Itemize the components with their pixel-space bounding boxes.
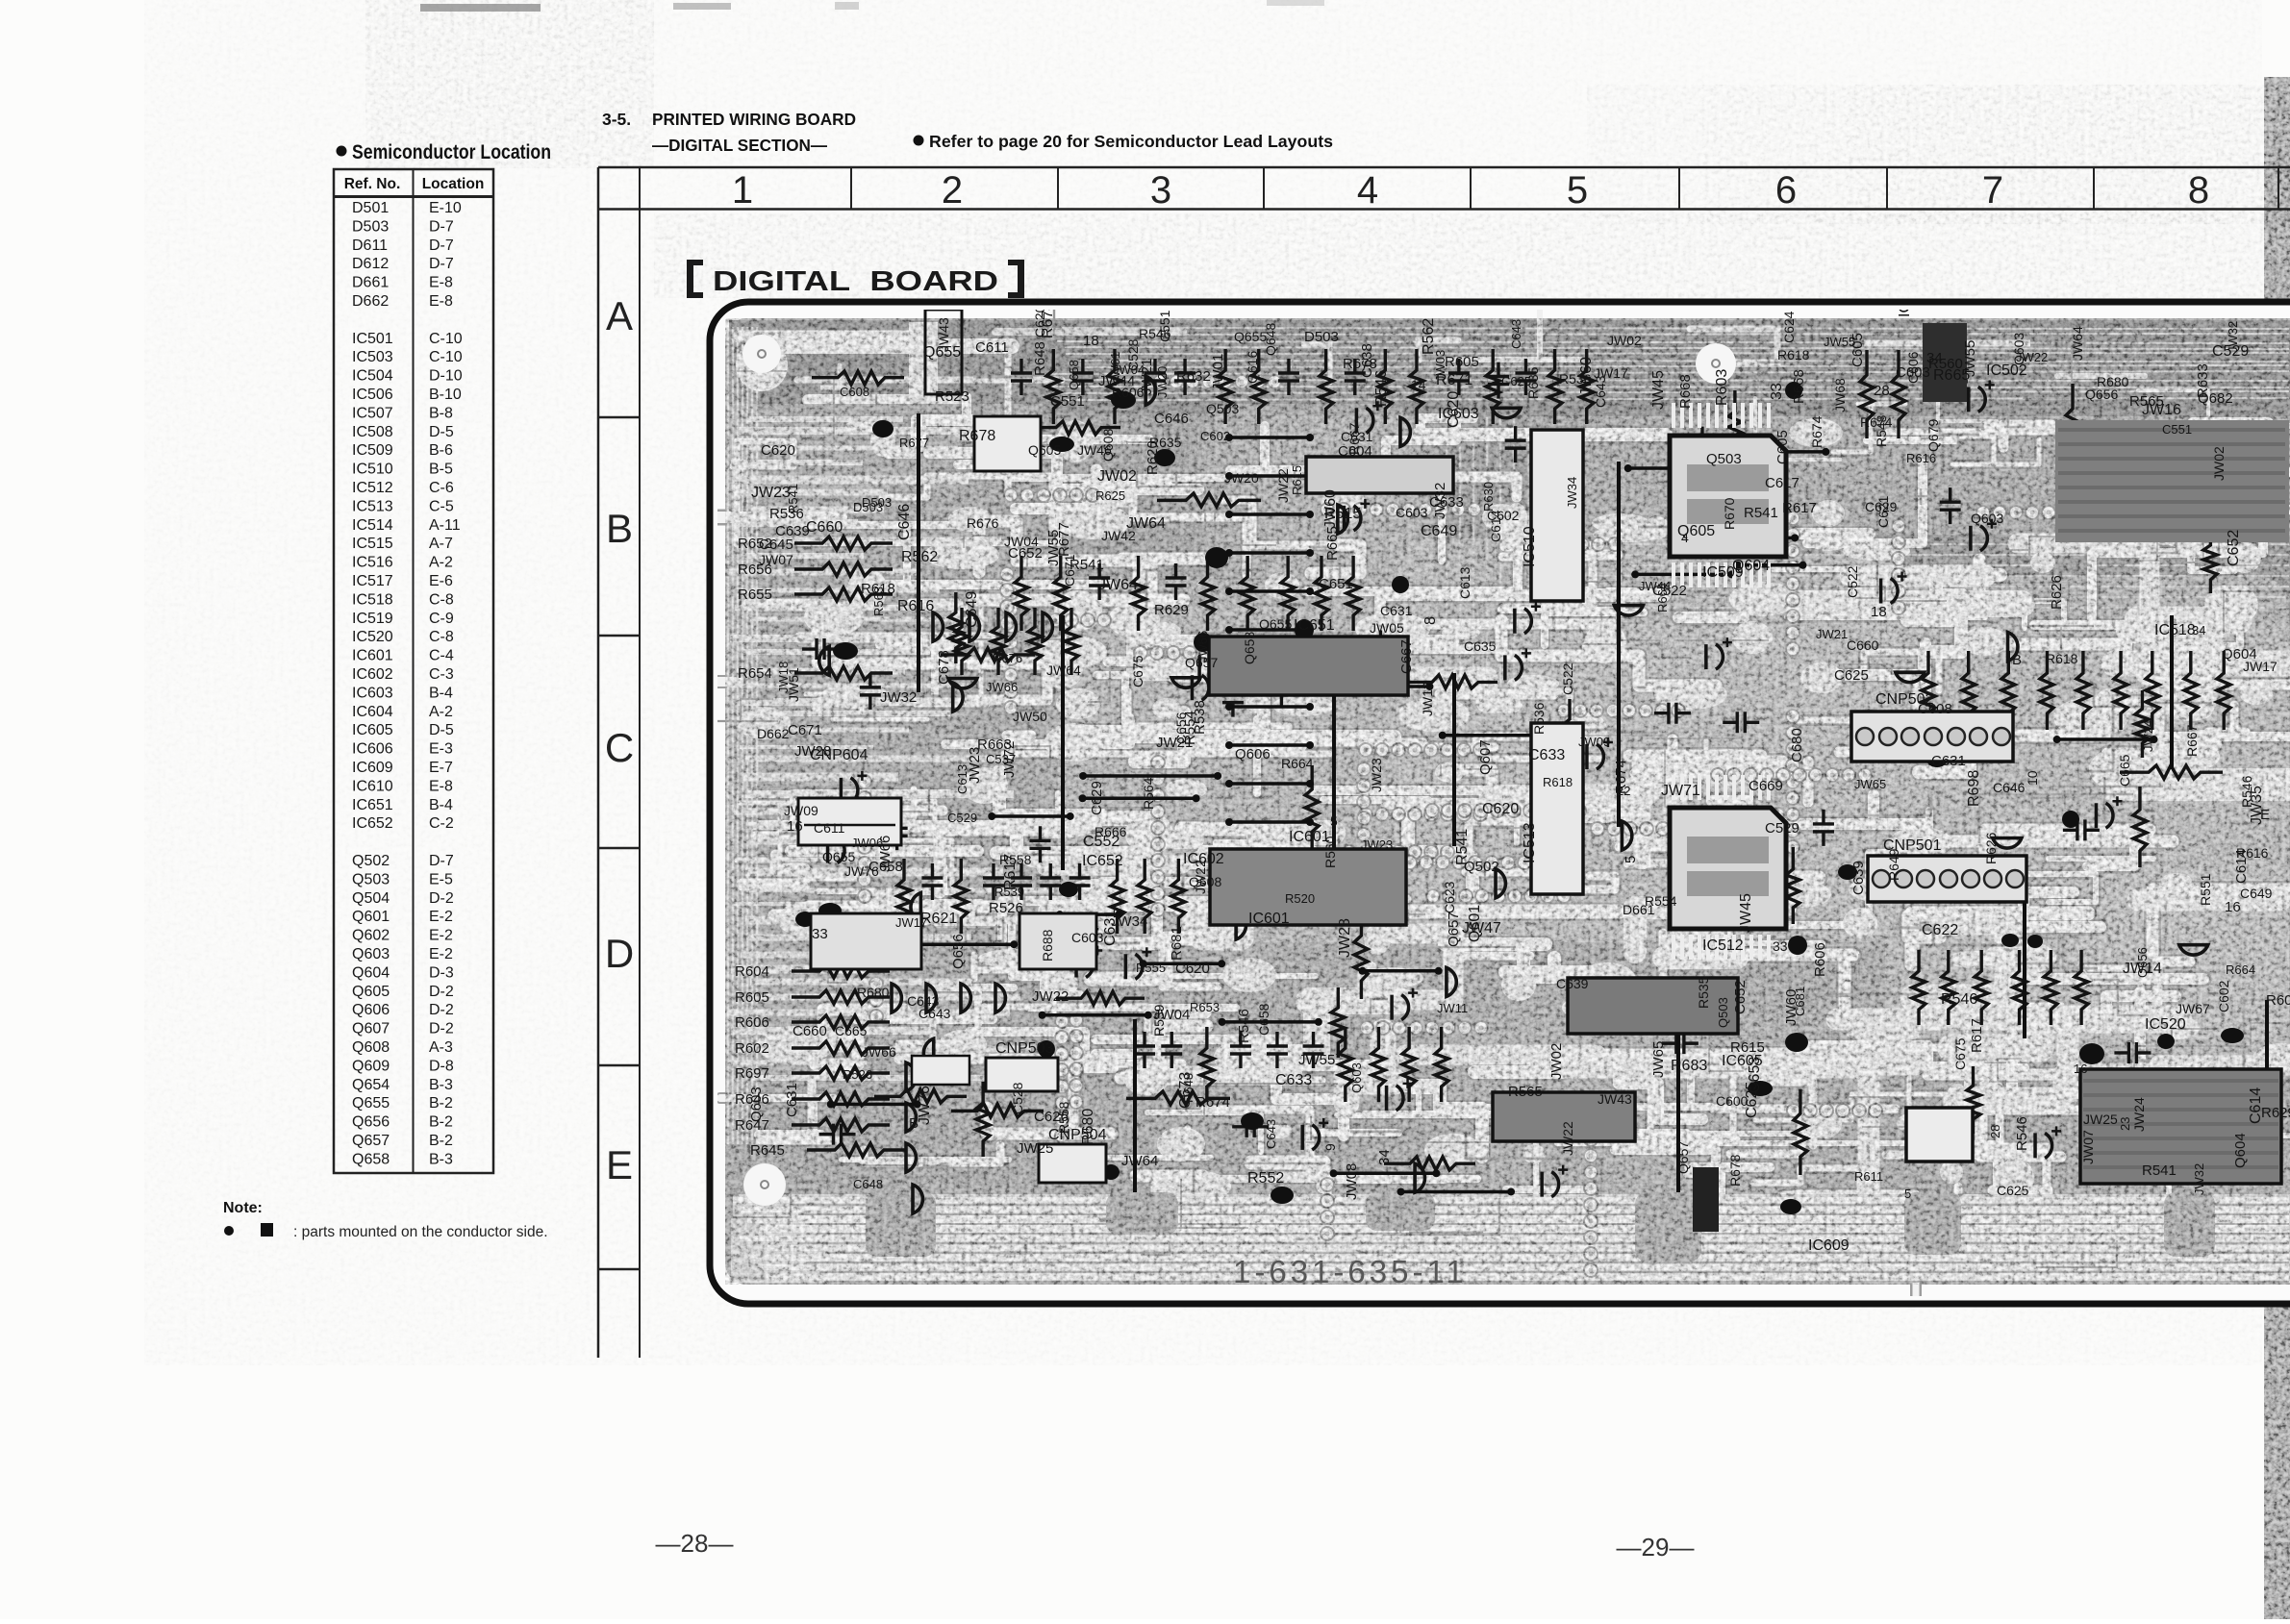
svg-text:3: 3 — [1150, 169, 1171, 212]
svg-text:E-6: E-6 — [429, 573, 453, 589]
svg-text:B: B — [909, 1115, 919, 1132]
svg-text:C624: C624 — [1781, 311, 1797, 343]
svg-text:C652: C652 — [2226, 530, 2242, 566]
svg-text:Q603: Q603 — [1971, 511, 2003, 526]
svg-text:D501: D501 — [352, 200, 389, 216]
svg-text:R605: R605 — [1445, 354, 1479, 370]
svg-text:C660: C660 — [806, 519, 843, 536]
svg-text:JW65: JW65 — [1650, 1041, 1667, 1078]
svg-text:R667: R667 — [1346, 422, 1362, 455]
svg-text:C529: C529 — [947, 811, 977, 825]
svg-text:Location: Location — [422, 176, 485, 192]
svg-text:C613: C613 — [1457, 566, 1472, 599]
svg-text:JW55: JW55 — [1298, 1052, 1335, 1068]
svg-text:R615: R615 — [1290, 465, 1304, 495]
svg-text:R523: R523 — [935, 388, 969, 405]
svg-text:1-631-635-11: 1-631-635-11 — [1233, 1254, 1468, 1289]
svg-text:C633: C633 — [1275, 1072, 1312, 1088]
svg-text:E-5: E-5 — [429, 871, 453, 887]
svg-text:C-3: C-3 — [429, 666, 454, 683]
svg-text:D-7: D-7 — [429, 853, 454, 869]
svg-text:IC506: IC506 — [352, 387, 393, 403]
svg-text:C-10: C-10 — [429, 349, 463, 365]
svg-text:IC504: IC504 — [352, 368, 393, 385]
svg-text:R558: R558 — [999, 852, 1032, 867]
svg-text:R629: R629 — [1154, 602, 1189, 618]
svg-text:R676: R676 — [993, 651, 1022, 665]
svg-text:D: D — [605, 931, 634, 976]
svg-text:R562: R562 — [1421, 318, 1437, 355]
svg-text:JW64: JW64 — [1121, 1153, 1158, 1169]
svg-text:R633: R633 — [2195, 363, 2211, 398]
svg-text:C605: C605 — [1774, 430, 1791, 464]
svg-text:D-2: D-2 — [429, 1021, 454, 1037]
svg-text:Q503: Q503 — [1206, 401, 1239, 416]
svg-text:C-10: C-10 — [429, 331, 463, 347]
svg-text:Q502: Q502 — [1464, 859, 1499, 875]
svg-text:C529: C529 — [1765, 820, 1799, 837]
svg-text:C649: C649 — [2240, 886, 2273, 901]
svg-text:R565: R565 — [1508, 1084, 1543, 1100]
svg-text:R653: R653 — [1190, 1000, 1220, 1014]
svg-text:R539: R539 — [1151, 1004, 1167, 1037]
svg-text:18: 18 — [1871, 604, 1887, 620]
svg-text:R680: R680 — [1080, 1109, 1096, 1145]
svg-text:Q658: Q658 — [1242, 632, 1257, 664]
svg-text:JW64: JW64 — [1046, 662, 1081, 678]
svg-text:JW25: JW25 — [2083, 1112, 2118, 1127]
svg-text:JW23: JW23 — [967, 747, 983, 784]
svg-text:R629: R629 — [2261, 1105, 2290, 1121]
svg-text:C665: C665 — [2117, 754, 2132, 787]
svg-text:JW22: JW22 — [1032, 988, 1069, 1005]
svg-text:D-5: D-5 — [429, 424, 454, 440]
svg-text:R674: R674 — [1860, 414, 1893, 430]
svg-text:D-7: D-7 — [429, 237, 454, 254]
svg-text:R606: R606 — [735, 1014, 769, 1031]
svg-text:IC604: IC604 — [352, 704, 393, 720]
svg-text:R625: R625 — [1095, 488, 1125, 503]
svg-text:1: 1 — [732, 169, 753, 212]
svg-text:R618: R618 — [1543, 775, 1573, 789]
svg-text:A-2: A-2 — [429, 555, 453, 571]
svg-text:JW17: JW17 — [1594, 365, 1628, 381]
svg-text:C623: C623 — [1442, 881, 1457, 913]
svg-text:Q607: Q607 — [1477, 739, 1494, 775]
svg-text:Q607: Q607 — [352, 1021, 390, 1037]
svg-text:IC509: IC509 — [352, 442, 393, 459]
svg-text:JW04: JW04 — [1004, 534, 1039, 549]
svg-text:R536: R536 — [1559, 371, 1592, 387]
svg-text:C-5: C-5 — [429, 498, 454, 514]
svg-text:C-8: C-8 — [429, 629, 454, 645]
svg-text:JW43: JW43 — [936, 317, 951, 352]
svg-text:R680: R680 — [2097, 374, 2129, 389]
svg-text:JW28: JW28 — [1337, 918, 1353, 958]
svg-text:Q655: Q655 — [352, 1095, 390, 1112]
svg-text:R562: R562 — [901, 549, 938, 565]
svg-text:C639: C639 — [1556, 976, 1589, 991]
svg-text:C649: C649 — [964, 591, 980, 628]
svg-text:IC510: IC510 — [1522, 526, 1538, 567]
svg-text:R667: R667 — [2184, 724, 2200, 757]
svg-text:6: 6 — [1775, 169, 1797, 212]
svg-text:JW16: JW16 — [2142, 402, 2181, 418]
svg-text:A-2: A-2 — [429, 704, 453, 720]
svg-text:Q608: Q608 — [352, 1039, 390, 1056]
svg-text:14: 14 — [1411, 377, 1426, 392]
svg-text:C620: C620 — [1482, 801, 1519, 817]
svg-text:R621: R621 — [920, 911, 957, 927]
svg-text:Q605: Q605 — [1028, 442, 1061, 458]
svg-text:B: B — [2012, 652, 2022, 668]
svg-text:R698: R698 — [1966, 770, 1982, 807]
svg-text:R546: R546 — [1941, 991, 1977, 1008]
svg-text:JW02: JW02 — [1548, 1043, 1565, 1080]
svg-text:Q655: Q655 — [1259, 616, 1292, 632]
svg-text:IC610: IC610 — [352, 778, 393, 794]
svg-text:B-6: B-6 — [429, 442, 453, 459]
svg-text:C631: C631 — [1380, 603, 1413, 618]
svg-text:R645: R645 — [750, 1142, 785, 1159]
svg-text:C602: C602 — [2216, 980, 2231, 1012]
svg-text:Ref. No.: Ref. No. — [344, 176, 401, 192]
svg-text:C617: C617 — [1765, 475, 1799, 491]
svg-text:Q504: Q504 — [352, 890, 390, 907]
svg-text:R603: R603 — [1714, 369, 1730, 406]
svg-text:R668: R668 — [1677, 374, 1694, 409]
svg-text:JW18: JW18 — [776, 662, 791, 693]
svg-text:R616: R616 — [897, 598, 934, 614]
svg-text:IC512: IC512 — [352, 480, 393, 496]
svg-text:Q616: Q616 — [1245, 351, 1260, 384]
svg-text:R564: R564 — [1141, 777, 1156, 810]
svg-text:JW64: JW64 — [1098, 577, 1138, 593]
svg-text:C625: C625 — [1997, 1183, 2029, 1198]
svg-text:C551: C551 — [1050, 393, 1085, 410]
svg-text:C608: C608 — [1918, 701, 1952, 717]
svg-text:JW46: JW46 — [1077, 442, 1112, 458]
svg-text:R558: R558 — [1056, 1101, 1071, 1134]
svg-text:JW21: JW21 — [1816, 627, 1848, 641]
svg-text:C671: C671 — [788, 722, 822, 738]
svg-text:E-10: E-10 — [429, 200, 462, 216]
svg-text:R668: R668 — [1791, 369, 1807, 404]
svg-text:C680: C680 — [1789, 728, 1805, 762]
svg-text:JW66: JW66 — [1195, 631, 1210, 662]
svg-text:Refer to page 20 for Semicondu: Refer to page 20 for Semiconductor Lead … — [929, 132, 1333, 151]
svg-text:C660: C660 — [1847, 637, 1879, 653]
svg-text:C646: C646 — [1154, 411, 1189, 427]
svg-text:D661: D661 — [1623, 902, 1655, 917]
svg-text:IC601: IC601 — [352, 648, 393, 664]
svg-text:JW34: JW34 — [1111, 913, 1147, 930]
svg-text:JW23: JW23 — [1369, 758, 1384, 792]
svg-text:JW22: JW22 — [1275, 468, 1291, 503]
svg-text:5: 5 — [1904, 1187, 1911, 1201]
svg-text:IC515: IC515 — [352, 536, 393, 552]
svg-text:Q606: Q606 — [1235, 746, 1271, 762]
svg-text:C611: C611 — [814, 820, 845, 836]
svg-text:R551: R551 — [2198, 873, 2213, 906]
svg-text:Note:: Note: — [223, 1200, 263, 1216]
svg-text:JW66: JW66 — [986, 680, 1018, 694]
svg-text:R546: R546 — [1373, 370, 1390, 407]
svg-text:E-8: E-8 — [429, 275, 453, 291]
svg-text:JW01: JW01 — [1210, 354, 1226, 390]
svg-text:E-8: E-8 — [429, 293, 453, 310]
svg-text:IC605: IC605 — [352, 722, 393, 738]
svg-text:B-2: B-2 — [429, 1095, 453, 1112]
svg-text:R617: R617 — [1969, 1018, 1985, 1053]
svg-text:2: 2 — [942, 169, 963, 212]
svg-text:B-8: B-8 — [429, 405, 453, 421]
svg-text:R618: R618 — [2046, 651, 2078, 666]
svg-text:C537: C537 — [986, 752, 1016, 766]
svg-text:B-2: B-2 — [429, 1114, 453, 1131]
svg-text:C608: C608 — [840, 385, 869, 399]
svg-text:C620: C620 — [1175, 961, 1210, 977]
svg-text:IC518: IC518 — [2154, 622, 2196, 638]
svg-text:C620: C620 — [1446, 391, 1462, 428]
svg-text:R618: R618 — [861, 581, 895, 597]
svg-text:R680: R680 — [857, 985, 890, 1000]
svg-text:Q604: Q604 — [1732, 558, 1770, 574]
svg-text:R678: R678 — [1343, 356, 1377, 372]
svg-text:R604: R604 — [735, 963, 769, 980]
svg-text:C639: C639 — [775, 523, 810, 539]
svg-text:R616: R616 — [1906, 451, 1936, 465]
svg-text:C665: C665 — [835, 1023, 868, 1038]
svg-text:R664: R664 — [2226, 962, 2255, 977]
svg-text:Q601: Q601 — [1467, 905, 1483, 942]
svg-text:R560: R560 — [1322, 836, 1338, 868]
svg-text:28: 28 — [1874, 383, 1890, 399]
svg-text:JW60: JW60 — [1783, 989, 1799, 1026]
svg-text:R688: R688 — [1040, 929, 1055, 962]
svg-text:C551: C551 — [2162, 422, 2192, 437]
svg-text:Q657: Q657 — [1675, 1141, 1691, 1174]
svg-text:C-4: C-4 — [429, 648, 454, 664]
svg-text:IC518: IC518 — [352, 591, 393, 608]
svg-text:JW76: JW76 — [917, 1086, 933, 1125]
svg-text:28: 28 — [1988, 1125, 2002, 1138]
svg-text:D-3: D-3 — [429, 964, 454, 981]
svg-text:C646: C646 — [896, 504, 913, 540]
svg-text:JW50: JW50 — [1013, 709, 1047, 724]
svg-text:: parts mounted on the conduct: : parts mounted on the conductor side. — [293, 1224, 548, 1240]
svg-text:IC601: IC601 — [1248, 911, 1290, 927]
svg-text:C552: C552 — [1083, 834, 1120, 850]
svg-text:C-6: C-6 — [429, 480, 454, 496]
svg-text:C660: C660 — [793, 1023, 827, 1039]
svg-text:C528: C528 — [1010, 1082, 1025, 1114]
svg-text:D-10: D-10 — [429, 368, 463, 385]
svg-text:JW22: JW22 — [2016, 350, 2048, 364]
svg-text:C669: C669 — [1749, 778, 1783, 794]
svg-text:JW28: JW28 — [794, 743, 831, 760]
svg-text:C603: C603 — [1396, 505, 1428, 520]
svg-text:B-5: B-5 — [429, 462, 453, 478]
svg-text:C629: C629 — [1089, 781, 1105, 815]
svg-text:R626: R626 — [1983, 832, 1999, 864]
svg-text:E-2: E-2 — [429, 909, 453, 925]
svg-text:C652: C652 — [1732, 980, 1749, 1014]
svg-text:34: 34 — [1376, 1149, 1393, 1165]
svg-text:R670: R670 — [1722, 497, 1737, 530]
svg-text:IC517: IC517 — [352, 573, 393, 589]
svg-text:C639: C639 — [1850, 861, 1867, 895]
svg-text:B-10: B-10 — [429, 387, 462, 403]
svg-text:R616: R616 — [2236, 845, 2269, 861]
svg-text:R617: R617 — [1782, 500, 1817, 516]
svg-text:JW55: JW55 — [1824, 335, 1855, 349]
svg-text:9: 9 — [1322, 1143, 1338, 1151]
svg-text:C629: C629 — [1865, 499, 1898, 514]
svg-text:C658: C658 — [868, 859, 903, 875]
svg-text:R654: R654 — [738, 665, 772, 682]
svg-text:Q654: Q654 — [352, 1077, 390, 1093]
svg-text:D611: D611 — [352, 237, 388, 254]
svg-text:R632: R632 — [1176, 368, 1211, 385]
svg-text:Q657: Q657 — [352, 1133, 390, 1149]
svg-text:Q679: Q679 — [1925, 419, 1941, 452]
svg-text:Q503: Q503 — [352, 871, 390, 887]
svg-text:JW09: JW09 — [784, 803, 818, 818]
svg-text:JW67: JW67 — [2176, 1001, 2210, 1016]
svg-text:JW23: JW23 — [751, 485, 791, 501]
svg-text:D-7: D-7 — [429, 218, 454, 235]
svg-text:Q604: Q604 — [2232, 1133, 2249, 1168]
svg-text:IC516: IC516 — [352, 555, 393, 571]
svg-text:Q609: Q609 — [352, 1058, 390, 1074]
svg-text:Q655: Q655 — [822, 849, 855, 864]
svg-text:JW09: JW09 — [1578, 735, 1610, 749]
svg-text:C648: C648 — [853, 1177, 883, 1191]
svg-text:23: 23 — [2118, 1117, 2132, 1131]
svg-text:B-3: B-3 — [429, 1077, 453, 1093]
svg-text:B-3: B-3 — [429, 1151, 453, 1167]
svg-text:D503: D503 — [1304, 329, 1339, 345]
svg-text:E-3: E-3 — [429, 741, 453, 758]
svg-text:C622: C622 — [1922, 922, 1958, 938]
svg-text:7: 7 — [1982, 169, 2003, 212]
svg-text:C614: C614 — [2248, 1087, 2264, 1124]
svg-text:IC609: IC609 — [1808, 1237, 1850, 1254]
svg-text:IC520: IC520 — [2145, 1016, 2186, 1033]
svg-text:R630: R630 — [1481, 482, 1496, 512]
svg-text:IC520: IC520 — [352, 629, 393, 645]
svg-text:Q502: Q502 — [352, 853, 390, 869]
svg-text:IC507: IC507 — [352, 405, 393, 421]
svg-text:Q648: Q648 — [1263, 323, 1278, 356]
svg-text:R605: R605 — [735, 989, 769, 1006]
svg-text:Q602: Q602 — [352, 928, 390, 944]
svg-text:R677: R677 — [1056, 522, 1072, 557]
svg-text:R546: R546 — [1236, 1009, 1252, 1043]
svg-text:C631: C631 — [1931, 753, 1966, 769]
svg-text:8: 8 — [2188, 169, 2209, 212]
svg-text:—DIGITAL SECTION—: —DIGITAL SECTION— — [652, 136, 827, 155]
svg-text:—29—: —29— — [1617, 1533, 1695, 1562]
svg-text:R541: R541 — [1070, 557, 1104, 573]
svg-text:Q601: Q601 — [352, 909, 390, 925]
svg-text:IC651: IC651 — [352, 797, 393, 813]
svg-text:33: 33 — [812, 926, 828, 942]
svg-text:A-3: A-3 — [429, 1039, 453, 1056]
svg-text:C528: C528 — [1125, 338, 1141, 371]
svg-text:C643: C643 — [1509, 319, 1523, 349]
svg-text:IC503: IC503 — [352, 349, 393, 365]
svg-text:8: 8 — [1422, 616, 1439, 625]
svg-text:R541: R541 — [2142, 1162, 2177, 1179]
svg-text:IC519: IC519 — [352, 611, 393, 627]
svg-text:JW07: JW07 — [759, 552, 793, 567]
svg-text:JW08: JW08 — [1344, 1163, 1360, 1200]
svg-text:R697: R697 — [735, 1065, 769, 1082]
svg-text:16: 16 — [2074, 1062, 2087, 1076]
svg-text:R649: R649 — [1886, 848, 1901, 881]
svg-text:C625: C625 — [1744, 1082, 1760, 1118]
svg-text:C651: C651 — [1319, 576, 1353, 592]
svg-text:C611: C611 — [975, 339, 1009, 356]
svg-text:R674: R674 — [1809, 415, 1824, 448]
svg-text:JW71: JW71 — [1661, 783, 1700, 799]
svg-text:IC651: IC651 — [1294, 617, 1335, 634]
svg-text:JW24: JW24 — [2141, 720, 2155, 752]
svg-text:JW02: JW02 — [1607, 333, 1642, 348]
svg-text:R535: R535 — [1696, 976, 1711, 1009]
svg-text:R606: R606 — [1112, 385, 1145, 400]
svg-text:R681: R681 — [1169, 926, 1185, 961]
svg-text:JW07: JW07 — [2080, 1130, 2096, 1164]
svg-text:JW32: JW32 — [2192, 1163, 2206, 1195]
svg-text:16: 16 — [787, 818, 803, 835]
svg-text:R539: R539 — [994, 885, 1024, 899]
svg-text:JW02: JW02 — [1097, 468, 1137, 485]
svg-text:IC508: IC508 — [352, 424, 393, 440]
svg-text:JW35: JW35 — [2249, 786, 2265, 825]
svg-text:B-4: B-4 — [429, 797, 453, 813]
svg-text:C678: C678 — [936, 650, 952, 685]
svg-text:JW32: JW32 — [2226, 321, 2240, 353]
svg-text:R626: R626 — [2049, 575, 2065, 610]
svg-text:E-7: E-7 — [429, 760, 453, 776]
svg-text:D-2: D-2 — [429, 1002, 454, 1018]
svg-text:IC512: IC512 — [1702, 937, 1744, 954]
svg-text:R677: R677 — [899, 436, 929, 450]
svg-text:10: 10 — [2025, 770, 2040, 786]
svg-text:JW20: JW20 — [1155, 366, 1170, 398]
svg-text:D-8: D-8 — [429, 1058, 454, 1074]
svg-text:JW22: JW22 — [1560, 1121, 1575, 1156]
svg-text:C675: C675 — [1130, 655, 1145, 687]
svg-text:IC652: IC652 — [1082, 853, 1123, 869]
svg-text:33: 33 — [1769, 383, 1785, 400]
svg-text:Q603: Q603 — [1349, 1062, 1364, 1093]
svg-text:R611: R611 — [1854, 1169, 1883, 1184]
svg-text:R678: R678 — [1727, 1154, 1743, 1187]
svg-text:Q503: Q503 — [1716, 997, 1730, 1028]
svg-text:JW23: JW23 — [1361, 837, 1393, 852]
svg-text:R554: R554 — [1182, 711, 1198, 745]
svg-text:JW34: JW34 — [1565, 477, 1579, 509]
svg-text:34: 34 — [2192, 623, 2205, 637]
svg-text:R648: R648 — [1032, 341, 1048, 376]
svg-text:PRINTED WIRING BOARD: PRINTED WIRING BOARD — [652, 110, 856, 129]
svg-text:C603: C603 — [1896, 364, 1930, 381]
svg-text:JW25: JW25 — [1017, 1140, 1053, 1157]
